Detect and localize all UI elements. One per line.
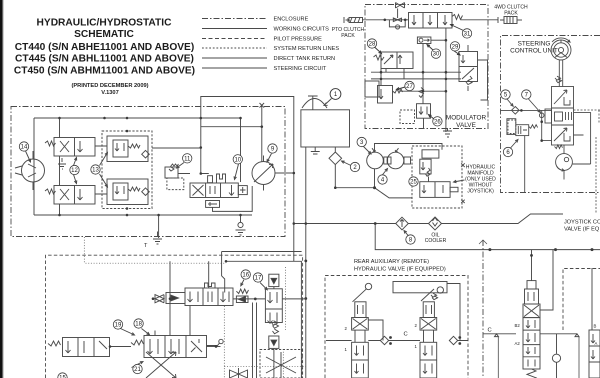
svg-text:PILOT PRESSURE: PILOT PRESSURE [274, 37, 323, 43]
svg-text:ENCLOSURE: ENCLOSURE [274, 17, 309, 23]
svg-text:C: C [404, 332, 408, 338]
svg-text:JOYSTICK CO: JOYSTICK CO [564, 220, 600, 226]
svg-text:T: T [144, 243, 148, 249]
svg-text:19: 19 [115, 323, 122, 329]
svg-text:HYDRAULIC VALVE (IF EQUIPPED): HYDRAULIC VALVE (IF EQUIPPED) [354, 267, 446, 273]
svg-text:B2: B2 [515, 323, 521, 328]
svg-text:21: 21 [134, 367, 141, 373]
svg-text:28: 28 [369, 42, 376, 48]
svg-text:B: B [594, 324, 597, 329]
svg-text:31: 31 [464, 32, 471, 38]
svg-text:PACK: PACK [341, 33, 355, 39]
svg-text:SCHEMATIC: SCHEMATIC [74, 29, 134, 40]
svg-text:16: 16 [242, 273, 249, 279]
svg-text:CT445 (S/N ABHL11001 AND ABOVE: CT445 (S/N ABHL11001 AND ABOVE) [15, 54, 194, 65]
svg-text:18: 18 [135, 322, 142, 328]
svg-text:14: 14 [21, 145, 28, 151]
svg-text:C: C [488, 328, 492, 334]
svg-text:MODULATOR: MODULATOR [446, 115, 487, 122]
svg-text:(PRINTED DECEMBER 2009): (PRINTED DECEMBER 2009) [71, 83, 148, 89]
svg-text:13: 13 [92, 168, 99, 174]
svg-text:A2: A2 [515, 341, 521, 346]
svg-text:1: 1 [415, 344, 418, 349]
svg-text:STEERING: STEERING [518, 41, 551, 48]
svg-text:12: 12 [71, 168, 78, 174]
svg-text:STEERING CIRCUIT: STEERING CIRCUIT [274, 66, 327, 72]
svg-text:30: 30 [433, 52, 440, 58]
svg-text:JOYSTICK): JOYSTICK) [467, 189, 494, 195]
svg-text:17: 17 [255, 276, 262, 282]
svg-text:REAR AUXILIARY (REMOTE): REAR AUXILIARY (REMOTE) [354, 259, 429, 265]
svg-text:26: 26 [434, 119, 441, 125]
svg-text:V.1307: V.1307 [101, 90, 119, 96]
svg-text:HYDRAULIC/HYDROSTATIC: HYDRAULIC/HYDROSTATIC [37, 18, 173, 29]
svg-text:CT440 (S/N ABHE11001 AND ABOVE: CT440 (S/N ABHE11001 AND ABOVE) [15, 42, 194, 53]
svg-text:VALVE (IF EQ: VALVE (IF EQ [564, 227, 600, 233]
svg-text:COOLER: COOLER [425, 238, 447, 244]
svg-text:SYSTEM RETURN LINES: SYSTEM RETURN LINES [274, 46, 340, 52]
svg-text:PACK: PACK [504, 11, 518, 17]
svg-text:29: 29 [452, 44, 459, 50]
svg-text:A: A [595, 341, 598, 346]
svg-text:2: 2 [345, 326, 348, 331]
svg-text:DIRECT TANK RETURN: DIRECT TANK RETURN [274, 56, 336, 62]
svg-text:27: 27 [406, 84, 413, 90]
svg-text:1: 1 [345, 347, 348, 352]
svg-text:VALVE: VALVE [456, 122, 476, 129]
svg-text:11: 11 [184, 156, 191, 162]
svg-text:25: 25 [410, 180, 417, 186]
svg-text:CT450 (S/N ABHM11001 AND ABOVE: CT450 (S/N ABHM11001 AND ABOVE) [14, 66, 195, 77]
svg-text:2: 2 [415, 323, 418, 328]
svg-text:WORKING CIRCUITS: WORKING CIRCUITS [274, 27, 330, 33]
svg-text:10: 10 [234, 157, 241, 163]
